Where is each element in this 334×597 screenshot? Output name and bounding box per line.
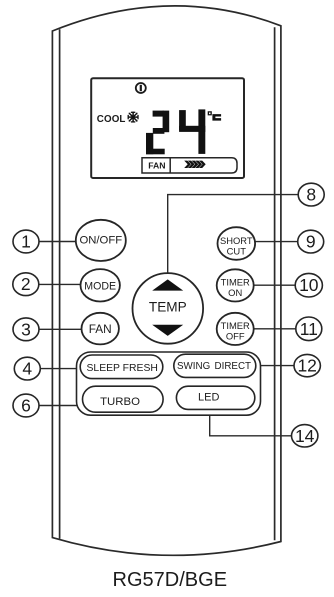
callout 8	[298, 183, 324, 206]
digit 4	[179, 109, 205, 153]
remote body	[52, 6, 281, 555]
button FAN	[82, 313, 119, 345]
leader line 4	[40, 368, 81, 370]
svg-text:ON/OFF: ON/OFF	[79, 234, 122, 246]
svg-text:14: 14	[295, 426, 315, 446]
svg-text:SWING: SWING	[177, 361, 210, 372]
svg-text:RG57D/BGE: RG57D/BGE	[113, 569, 227, 591]
svg-text:TIMER: TIMER	[221, 277, 250, 288]
button TURBO	[83, 386, 164, 412]
svg-text:TIMER: TIMER	[221, 320, 250, 331]
leader line 2	[39, 283, 82, 285]
svg-text:SLEEP FRESH: SLEEP FRESH	[86, 363, 157, 374]
svg-text:DIRECT: DIRECT	[215, 361, 251, 372]
svg-text:4: 4	[22, 359, 32, 379]
svg-text:1: 1	[21, 232, 31, 252]
svg-text:COOL: COOL	[97, 114, 126, 125]
fan speed chevrons	[184, 161, 206, 168]
svg-text:MODE: MODE	[84, 280, 116, 292]
button TIMER OFF	[217, 313, 254, 345]
svg-text:OFF: OFF	[226, 330, 245, 341]
leader line 3	[39, 328, 83, 330]
fan indicator box	[142, 158, 237, 173]
svg-text:TURBO: TURBO	[100, 396, 140, 408]
svg-text:6: 6	[21, 396, 31, 416]
leader line 11	[254, 328, 296, 330]
digit 2	[146, 111, 169, 155]
svg-text:LED: LED	[198, 392, 219, 404]
svg-text:FAN: FAN	[89, 322, 112, 336]
callout 10	[295, 273, 322, 297]
bottom button group container	[77, 352, 261, 415]
svg-text:10: 10	[299, 275, 319, 295]
svg-text:3: 3	[21, 319, 31, 339]
power indicator	[136, 83, 146, 93]
snowflake icon	[128, 112, 139, 123]
callout 14	[292, 425, 318, 447]
leader line 1	[39, 241, 77, 243]
degree C	[208, 111, 221, 120]
callout 3	[13, 318, 39, 341]
leader line 12	[256, 365, 295, 367]
button SLEEP FRESH	[80, 355, 163, 379]
svg-text:SHORT: SHORT	[220, 235, 253, 246]
leader line 8	[168, 195, 299, 274]
callout 4	[14, 357, 40, 380]
button TEMP	[133, 273, 204, 344]
svg-text:9: 9	[306, 232, 316, 252]
svg-text:CUT: CUT	[227, 245, 247, 256]
remote inner line left	[59, 29, 61, 538]
leader line 6	[39, 405, 85, 407]
callout 6	[13, 394, 39, 417]
leader line 10	[254, 284, 296, 286]
svg-text:12: 12	[297, 356, 316, 376]
svg-text:TEMP: TEMP	[149, 299, 187, 314]
callout 11	[296, 317, 322, 341]
leader line 14	[210, 410, 292, 436]
svg-text:8: 8	[306, 185, 316, 205]
callout 9	[298, 230, 324, 253]
svg-text:ON: ON	[228, 287, 242, 298]
remote inner line right	[274, 27, 276, 540]
svg-text:FAN: FAN	[148, 160, 165, 170]
button SHORT CUT	[218, 227, 256, 260]
button MODE	[81, 269, 120, 301]
button SWING DIRECT	[174, 354, 256, 377]
leader line 9	[254, 241, 298, 243]
callout 12	[294, 354, 320, 376]
callout 2	[13, 273, 39, 296]
svg-text:11: 11	[300, 319, 318, 339]
button LED	[176, 386, 254, 409]
display	[91, 78, 244, 178]
callout 1	[13, 230, 39, 253]
svg-text:2: 2	[21, 274, 31, 294]
button TIMER ON	[217, 269, 254, 301]
button ON/OFF	[76, 220, 126, 261]
